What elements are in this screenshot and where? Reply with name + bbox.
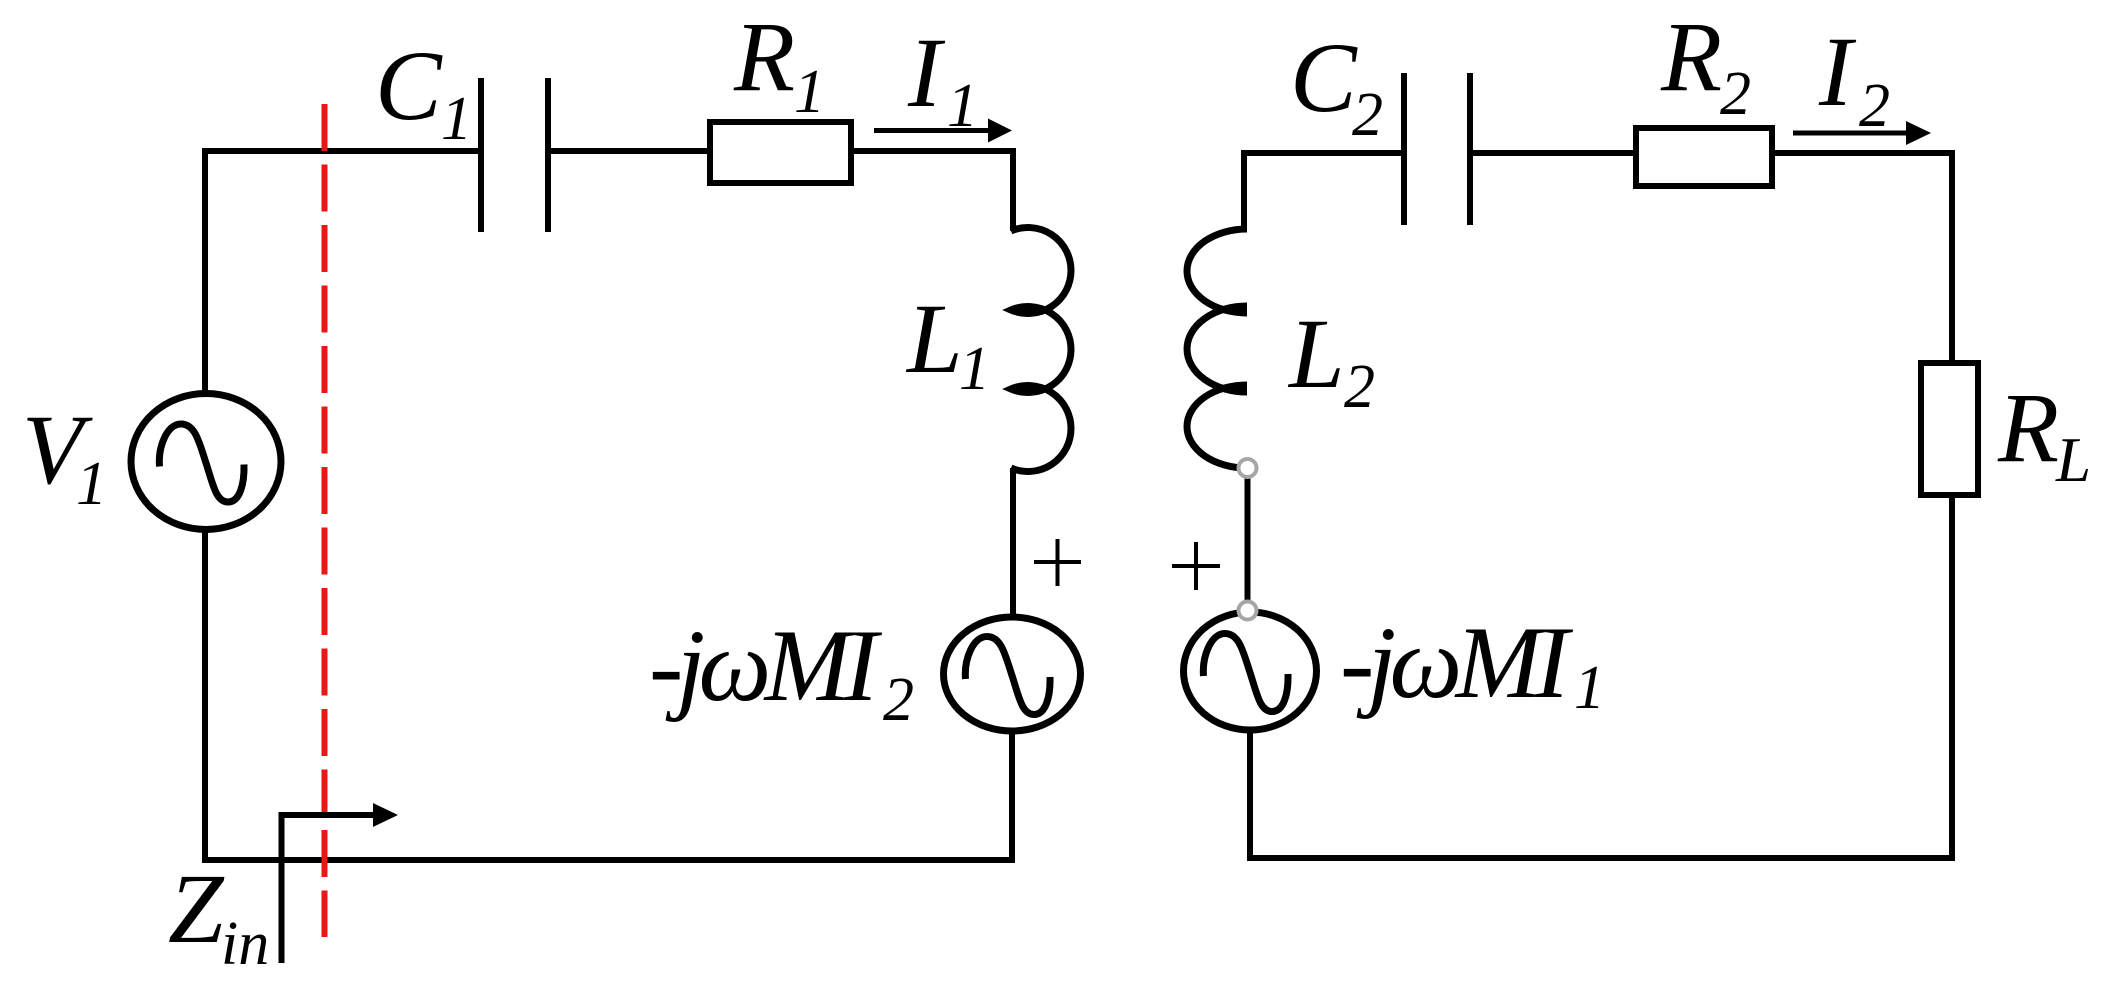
svg-text:L: L [905, 283, 963, 394]
load resistor RL body [1921, 363, 1978, 495]
svg-text:-jωMI: -jωMI [1340, 606, 1574, 720]
svg-text:1: 1 [959, 335, 990, 403]
svg-text:L: L [2055, 425, 2091, 495]
wire: V1 top up and right to C1 left plate [205, 151, 479, 393]
wire: source bottom, left bottom wire, up to V1 bottom [205, 530, 1012, 860]
sine wave inside -jwMI1 [1203, 634, 1288, 712]
capacitor C2 right plate [1467, 73, 1473, 225]
svg-text:2: 2 [1859, 72, 1890, 140]
source V1 circle [131, 394, 281, 530]
svg-text:in: in [221, 910, 269, 978]
capacitor C2 left plate [1401, 73, 1407, 225]
svg-text:R: R [1997, 372, 2059, 483]
current arrow I1 [874, 128, 992, 133]
svg-text:1: 1 [1574, 654, 1605, 722]
svg-text:2: 2 [1352, 81, 1383, 149]
polarity plus of right dependent source [1172, 542, 1220, 590]
svg-text:1: 1 [947, 72, 978, 140]
svg-text:Z: Z [168, 853, 225, 964]
L1 coil cusp nubs [1013, 310, 1035, 389]
polarity plus of left dependent source [1034, 539, 1081, 586]
svg-text:-jωMI: -jωMI [649, 609, 883, 723]
svg-text:I: I [1818, 16, 1857, 127]
capacitor C1 right plate [545, 78, 551, 232]
current arrow I2 [1793, 131, 1909, 136]
svg-text:2: 2 [1720, 60, 1751, 128]
svg-text:1: 1 [441, 85, 472, 153]
inductor L1 coil (3 turns bulging right) [1011, 227, 1071, 471]
wire: RL bottom, right bottom wire, up to source bottom [1250, 495, 1952, 858]
svg-text:I: I [907, 17, 946, 128]
wire: L1 bottom to dependent source top [1010, 468, 1016, 618]
wire: between L2 bottom node and -jwMI1 top node [1245, 470, 1251, 608]
svg-text:1: 1 [794, 58, 825, 126]
svg-text:R: R [733, 1, 795, 112]
svg-text:1: 1 [76, 450, 107, 518]
wire: L2 top up and right to C2 left plate [1244, 153, 1402, 231]
resistor R2 body [1636, 128, 1772, 186]
svg-text:2: 2 [883, 666, 914, 734]
sine wave inside -jwMI2 [965, 637, 1050, 715]
inductor L2 coil (3 turns bulging left) [1187, 229, 1247, 468]
red dashed cut line [322, 104, 328, 937]
dependent source -jwMI1 circle [1184, 612, 1317, 730]
svg-text:R: R [1660, 1, 1722, 112]
wire: C1 to R1 [548, 148, 710, 154]
svg-text:2: 2 [1344, 353, 1375, 421]
svg-text:C: C [375, 30, 443, 141]
node: small circle at -jwMI1 top [1239, 602, 1257, 620]
capacitor C1 left plate [478, 78, 484, 232]
dependent source -jwMI2 circle [944, 617, 1081, 731]
svg-text:L: L [1287, 298, 1345, 409]
wire: R1 to top corner, down to L1 top [851, 151, 1013, 231]
wire: R2 to top right corner, down to RL top [1772, 153, 1952, 363]
Zin reference arrow (hook) [282, 815, 375, 963]
sine wave inside V1 [159, 424, 244, 502]
svg-text:C: C [1290, 22, 1358, 133]
wire: C2 to R2 [1470, 150, 1636, 156]
resistor R1 body [710, 122, 851, 183]
node: small circle at L2 bottom [1239, 459, 1257, 477]
